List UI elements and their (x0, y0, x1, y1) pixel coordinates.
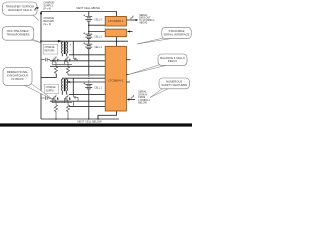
svg-text:(P + 4): (P + 4) (43, 8, 51, 11)
svg-text:BALANCE 6 CELLS: BALANCE 6 CELLS (160, 56, 185, 60)
svg-text:STACKABLE: STACKABLE (169, 29, 185, 33)
wire battery stack column (88, 12, 90, 76)
svg-text:LTC3300-1: LTC3300-1 (108, 19, 124, 23)
battery cell 1 (85, 84, 92, 89)
wire battery stack dotted ellipsis (88, 76, 90, 84)
svg-text:SUPPLY: SUPPLY (46, 90, 55, 92)
svg-text:ADJACENT CELLS: ADJACENT CELLS (8, 8, 32, 12)
svg-text:CELL 5: CELL 5 (94, 36, 102, 38)
node junction rail / cell A wire (40, 40, 42, 42)
wire rail dotted gap (40, 74, 42, 77)
resistor R2 (cell A right gate) (66, 66, 69, 75)
wire U2 bottom to U3 top (116, 37, 118, 47)
IC U1 LTC3300-1 (top balancer) (105, 16, 126, 26)
wire cell B upper (from gate resistor) (68, 74, 105, 76)
svg-text:SERIAL INTERFACE: SERIAL INTERFACE (164, 33, 190, 37)
wire rail jog to cell A resistor (41, 74, 56, 77)
svg-text:LTC6804-1: LTC6804-1 (108, 79, 124, 83)
svg-text:DATA IN: DATA IN (138, 93, 147, 96)
wire U3 bottom pin to bottom bus (98, 111, 117, 119)
svg-text:CHARGE: CHARGE (46, 86, 56, 89)
svg-text:NEXT CELL ABOVE: NEXT CELL ABOVE (77, 6, 101, 10)
callout numerous safety features (150, 78, 189, 98)
wire tap y101 to U3 (50, 100, 105, 102)
wire cell A source row (52, 64, 72, 66)
capacitor C1 (cell A left) (41, 58, 50, 62)
svg-text:'OFF-THE-SHELF': 'OFF-THE-SHELF' (7, 29, 30, 33)
transistor Q4 (cell B right FET) (64, 95, 70, 103)
wire left supply rail (40, 12, 42, 120)
serial data in wire and arrow (127, 96, 135, 101)
pin stub U3 right y82 (126, 81, 130, 83)
IC U3 LTC6804-1 (monitor) (105, 46, 126, 111)
transistor Q2 (cell A right FET) (64, 56, 70, 64)
svg-text:CELL 6: CELL 6 (94, 19, 102, 21)
node junction secondary B (73, 94, 74, 95)
svg-text:TRANSFER TO/FROM: TRANSFER TO/FROM (6, 4, 35, 8)
text serial data in (138, 91, 150, 105)
transformer T_A (61, 41, 68, 56)
wire tap y66 to U3 (50, 65, 105, 67)
wire transformer B tops to U3 (62, 77, 105, 79)
wire tap y106 to U3 (69, 105, 105, 107)
node junction bus A at battery (88, 40, 90, 42)
wire secondary B right drop (72, 78, 74, 94)
node terminal square at rail top (40, 12, 42, 14)
resistor R1 (cell A left gate) (54, 66, 57, 74)
callout off-the-shelf transformers (2, 27, 40, 43)
callout stackable serial interface (137, 27, 191, 44)
serial data out wire and arrow (126, 16, 138, 21)
svg-text:LTC6804-1: LTC6804-1 (138, 100, 150, 102)
wire cell tap to U2 (89, 31, 105, 33)
pin arrow into U2 right (128, 31, 133, 33)
transistor Q3 (cell B left FET) (52, 95, 58, 103)
node junction cell6 tap (88, 24, 90, 26)
svg-text:FROM: FROM (138, 97, 145, 99)
svg-text:RETURN: RETURN (45, 50, 55, 52)
curved transfer arrow (35, 7, 38, 10)
text charge return rail (43, 17, 54, 26)
bottom black bar (0, 123, 192, 126)
battery cell 5 (85, 34, 92, 39)
node junction bus A at U2 drop (116, 41, 118, 43)
svg-text:BIDIRECTIONAL: BIDIRECTIONAL (7, 70, 29, 74)
wire tap y94.6 to U3 (69, 94, 105, 96)
svg-text:NEXT CELL BELOW: NEXT CELL BELOW (78, 120, 103, 124)
plus ticks on battery cells (83, 15, 85, 85)
node junction U2 tap (88, 31, 90, 33)
node junction secondary A (73, 54, 74, 55)
callout bidirectional synchronous flyback (3, 67, 53, 99)
svg-text:CHARGE: CHARGE (45, 46, 55, 49)
capacitor C4 (cell B right) (73, 95, 78, 107)
svg-text:BELOW: BELOW (138, 103, 147, 105)
capacitor C2 (cell A right) (73, 55, 77, 61)
battery cell 6 (85, 16, 92, 21)
svg-text:CELL 4: CELL 4 (94, 47, 102, 49)
arrow charge return direction (56, 40, 61, 42)
wire cell6 tap to U1 (89, 24, 105, 26)
wire charge supply tap to U3 (67, 81, 105, 83)
wire serial/flyback bus A (long horizontal) (41, 40, 128, 42)
pin stub U3 right y60 (126, 59, 130, 61)
svg-text:SAFETY FEATURES: SAFETY FEATURES (161, 83, 187, 87)
capacitor C3 (cell B left) (41, 96, 50, 100)
box charge return label (43, 44, 57, 54)
wire battery stack lower (88, 89, 90, 119)
svg-text:SERIAL: SERIAL (138, 91, 147, 94)
callout transfer to/from adjacent cells (3, 2, 39, 20)
svg-text:TRANSFORMERS: TRANSFORMERS (6, 33, 29, 37)
text charge supply rail (43, 2, 54, 11)
svg-text:(G + 4): (G + 4) (43, 23, 51, 26)
IC U2 second balancer (105, 29, 126, 37)
svg-text:ABOVE: ABOVE (139, 22, 147, 25)
text serial data out (139, 14, 155, 25)
wire secondary A right drop (72, 41, 74, 55)
arrow charge supply direction (66, 81, 69, 83)
svg-text:SYNCHRONOUS: SYNCHRONOUS (7, 74, 29, 78)
callout balance 6 cells per ic (129, 54, 188, 75)
battery cell 4 (85, 44, 92, 49)
svg-text:FLYBACK: FLYBACK (11, 77, 23, 81)
wire tap y61 to U3 (50, 60, 105, 62)
wire bottom bus (next cell below) (41, 118, 119, 120)
svg-text:PER IC: PER IC (168, 59, 177, 63)
node junction dots on bottom bus (55, 118, 56, 119)
wire cell B source row (52, 103, 72, 105)
pin stub U3 right y74.5 (126, 74, 128, 76)
box charge supply label (44, 84, 58, 93)
transformer T_B (61, 78, 68, 94)
wire top bus (next cell above) (41, 12, 117, 17)
resistor R4 (cell B right gate) (66, 105, 69, 119)
svg-text:CELL 1: CELL 1 (94, 87, 102, 89)
transistor Q1 (cell A left FET) (52, 56, 58, 64)
svg-text:NUMEROUS: NUMEROUS (166, 80, 182, 84)
resistor R3 (cell B left gate) (54, 105, 57, 119)
wire tap y55 to U3 (69, 54, 105, 56)
